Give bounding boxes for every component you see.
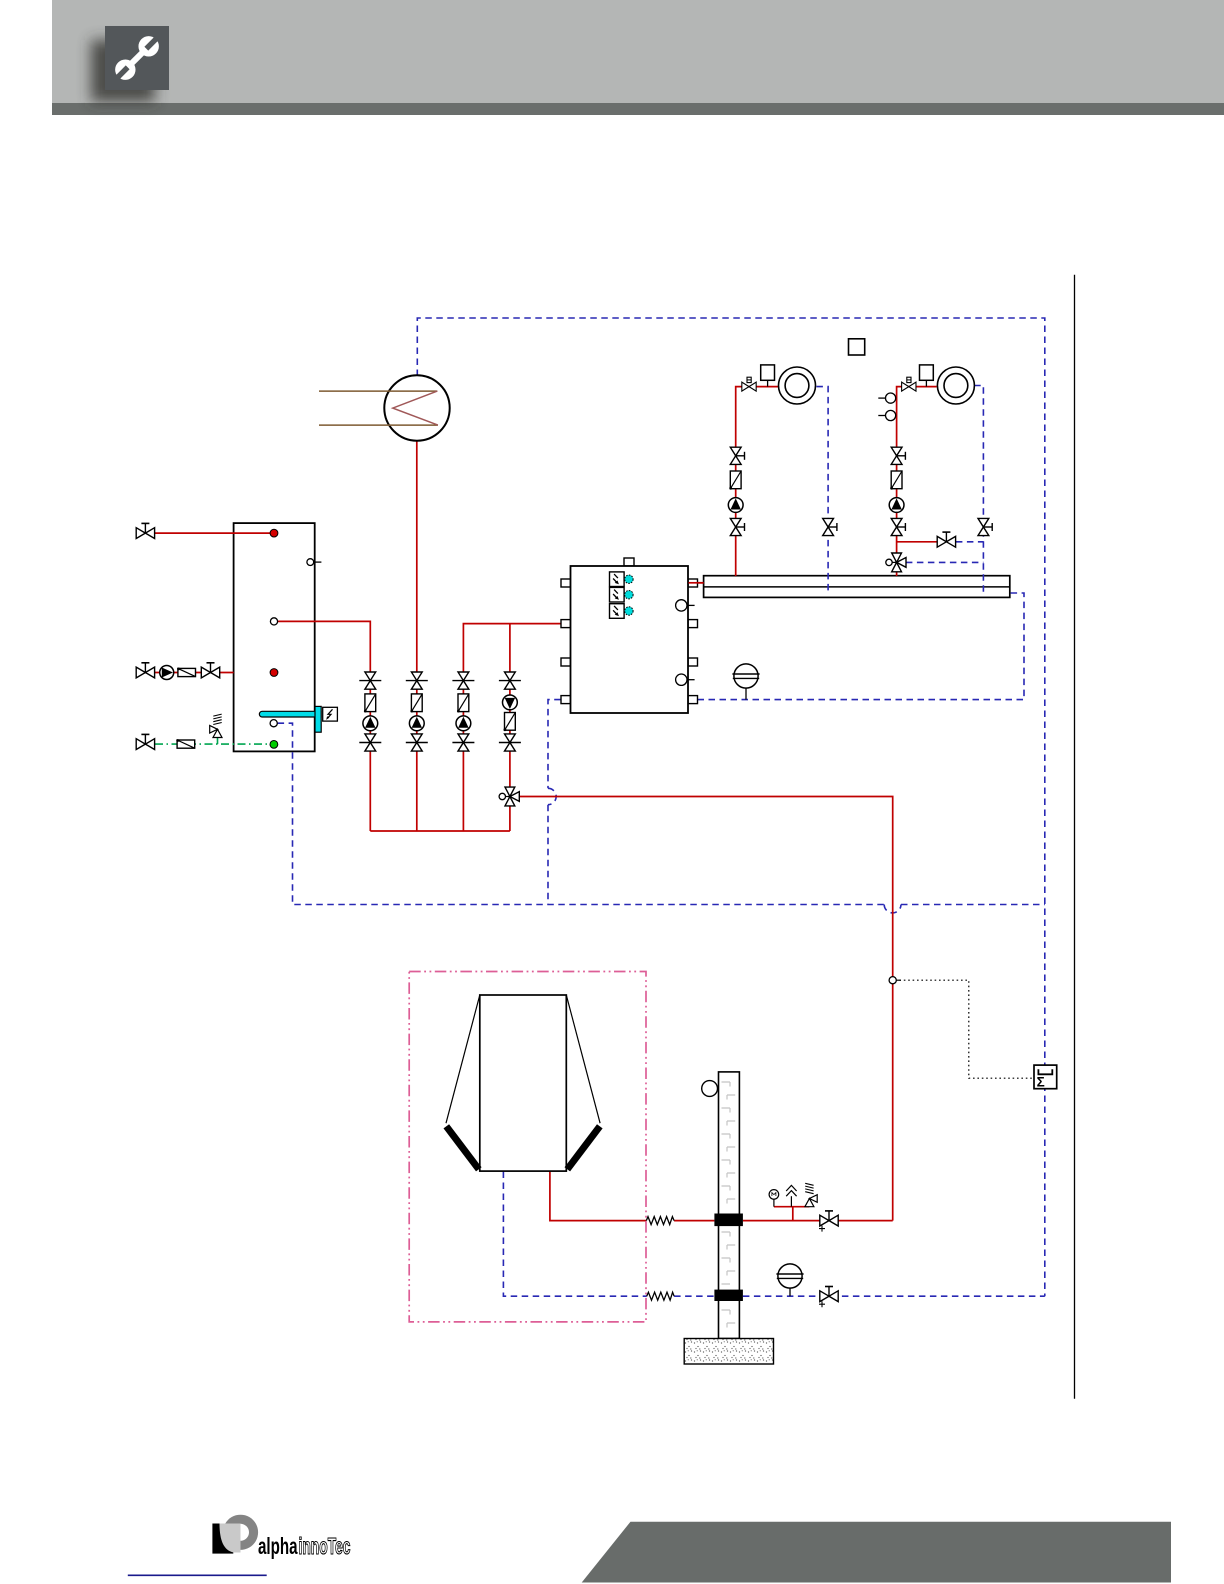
wire: red from top-left valve to tank port (155, 532, 271, 534)
cyan indicator 2 (625, 591, 633, 599)
3-way mixing valve column 4 (499, 787, 519, 806)
pump P1 (160, 666, 174, 680)
wire: dashed from storage tank sensor down and right with hop (278, 723, 885, 904)
svg-text:alpha: alpha (258, 1533, 298, 1559)
circuit 2 check valve (890, 471, 902, 490)
footer gray parallelogram (582, 1522, 1171, 1583)
service icon square with wrench (105, 26, 169, 90)
wire: bottom collector (370, 830, 510, 832)
tank sensor circle top right (307, 559, 322, 566)
heat pump left thick band (446, 1126, 479, 1169)
logo: gray donut (212, 1515, 258, 1554)
footer blue rule (128, 1574, 267, 1576)
circuit 2 sensor circles (878, 393, 895, 403)
right border line (1074, 275, 1076, 1399)
wire: pump column risers (370, 672, 510, 831)
wall duct block lower (714, 1290, 743, 1301)
column 1: check valve (364, 694, 376, 713)
relay symbol 3 (610, 604, 625, 619)
tower brick marks (722, 1082, 736, 1328)
wire: dashed from radiator circuit 1 down to manifold (816, 387, 828, 594)
svg-text:Σ: Σ (1037, 1075, 1045, 1090)
tank port green dot bottom (270, 741, 278, 749)
wire: dashed branch valve circuit 2 (956, 541, 984, 543)
heat pump right slant (566, 995, 600, 1123)
circuit 1 pump (728, 498, 743, 513)
logo: black square (212, 1524, 233, 1554)
wire: dashed heat pump brine return to bottom right (503, 1172, 1044, 1297)
wire: red from control box to pump columns 3 and 4 (463, 624, 561, 673)
circuit 2 radiator circles (937, 367, 974, 404)
circuit 1 thermostatic valve (742, 377, 756, 391)
column 2: valve (406, 672, 428, 689)
circuit 2 return valve on dashed line (978, 518, 992, 535)
wire: dashed from mixing valve circuit 2 (906, 561, 984, 563)
relay symbol 2 (610, 587, 625, 602)
heat pump right thick band (567, 1126, 600, 1169)
column 4: check valve (504, 713, 516, 732)
electric heating element cyan (259, 711, 321, 717)
circuit 2 mixing valve (886, 553, 906, 572)
column 1: valve bottom (359, 734, 381, 751)
valve V1 (136, 663, 154, 678)
column 1: valve (359, 672, 381, 689)
wire: dashed control box right to expansion vessel and manifold (698, 593, 1025, 700)
shut-off valve on red pipe (819, 1211, 838, 1232)
column 1: pump (363, 716, 378, 731)
air vent (786, 1185, 796, 1206)
wire: red from tank mid circle to pump column 1 (278, 621, 371, 673)
header light gray band (52, 0, 1224, 103)
circuit 2 valve with side handle (891, 447, 905, 464)
heat exchanger circle (384, 375, 449, 440)
logo: light gray wedge (220, 1524, 241, 1553)
valve top left (136, 523, 154, 538)
circuit 1 radiator circles (779, 367, 816, 404)
svg-text:innoTec: innoTec (299, 1533, 351, 1559)
control box tabs (561, 558, 698, 704)
electric connection box with bolt (323, 707, 338, 721)
wire: dashed loop top from heat exchanger to right side (417, 318, 1045, 1296)
circuit 2 thermostatic valve (902, 377, 916, 391)
wire: red cold water line to tank mid port (136, 672, 234, 674)
foundation (684, 1339, 773, 1365)
valve V3 (136, 734, 154, 749)
cyan indicator 1 (625, 575, 633, 583)
spring on red pipe (646, 1217, 674, 1225)
wire: red from 3way valve to heat pump riser (517, 797, 893, 1221)
column 3: valve bottom (452, 734, 474, 751)
wire: red from heat exchanger to pump column 2 (416, 441, 418, 673)
circuit 1 lower valve (730, 518, 744, 535)
outdoor sensor square (849, 339, 865, 355)
circuit 1 return valve on dashed line (823, 518, 837, 535)
shut-off valve on blue pipe (819, 1287, 838, 1308)
tank sensor circle lower (270, 720, 277, 727)
column 3: pump (456, 716, 471, 731)
control box sensor circle 2 (676, 674, 695, 685)
column 4: pump down (503, 695, 518, 710)
circuit 2 pump (889, 498, 904, 513)
tank port red dot top (270, 529, 278, 537)
safety valve wall (805, 1183, 817, 1206)
buffer tank body (234, 523, 315, 751)
column 2: pump (409, 716, 424, 731)
wire: radiator circuit 1 riser (736, 387, 778, 576)
tank port red dot mid (270, 669, 278, 677)
relay symbol 1 (610, 572, 625, 587)
red stub through right tab to manifold (689, 582, 704, 584)
valve V2 (201, 663, 219, 678)
wall duct block upper (714, 1214, 743, 1227)
heat pump left slant (446, 995, 480, 1123)
column 3: valve (452, 672, 474, 689)
circuit 1 controller square (761, 365, 775, 387)
control box sensor circle 1 (676, 600, 695, 611)
check valve green line (176, 739, 194, 748)
circuit 2 lower valve (891, 518, 905, 535)
circuit 2 controller square (920, 365, 934, 387)
column 2: valve bottom (406, 734, 428, 751)
wire: radiator circuit 2 riser (897, 387, 937, 576)
tank mid outlet circle (270, 618, 277, 625)
tower top circle (702, 1081, 718, 1097)
column 4: valve (499, 672, 521, 689)
wire: red heat pump supply bottom (550, 1172, 893, 1221)
circuit 1 valve with side handle (730, 447, 744, 464)
cyan indicator 3 (625, 607, 633, 615)
heat exchanger zigzag (393, 391, 438, 425)
spring on blue pipe (647, 1292, 674, 1300)
column 2: check valve (410, 694, 422, 713)
safety valve tank (210, 714, 222, 737)
column 3: check valve (457, 694, 469, 713)
wire: safety group stub (774, 1207, 810, 1221)
check valve (177, 668, 195, 677)
header dark gray band (52, 103, 1224, 115)
column 4: valve bottom (499, 734, 521, 751)
wire: control box to manifold (697, 582, 704, 584)
pressure gauge (769, 1190, 779, 1207)
wire: dashed control box bottom-left down with hop over red pipe (548, 700, 561, 789)
circuit 2 branch valve (937, 532, 955, 547)
heat exchanger primary lines (319, 391, 438, 425)
wire: dashed from radiator circuit 2 down to manifold (974, 386, 983, 595)
circuit 1 check valve (729, 471, 741, 490)
heat pump body (480, 995, 567, 1171)
control box body (571, 566, 689, 713)
distribution manifold body (704, 576, 1010, 598)
tower body (719, 1072, 740, 1339)
wire: circuit 2 branch to valve (897, 541, 938, 543)
